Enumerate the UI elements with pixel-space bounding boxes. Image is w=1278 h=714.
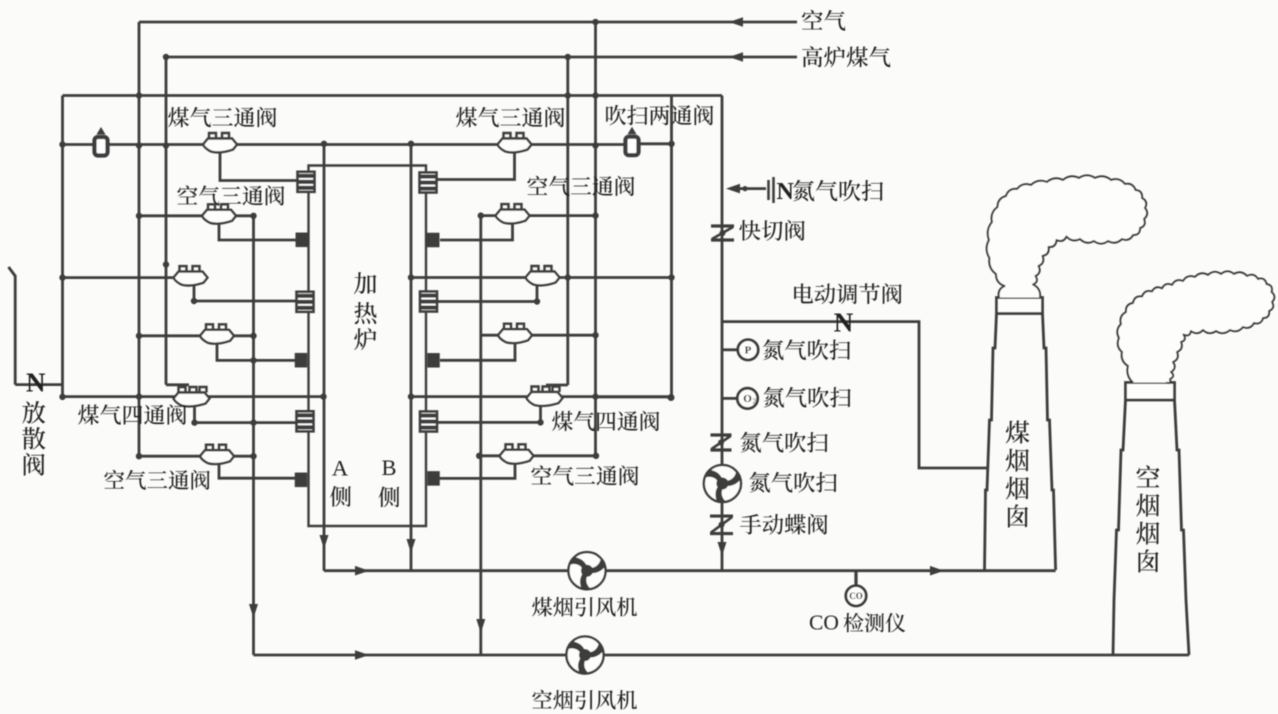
wire row1R valve stem to burner	[437, 152, 515, 180]
junction dot row4L stem crossing	[250, 357, 256, 363]
svg-text:2: 2	[753, 398, 757, 406]
valve air three-way row6 right	[500, 450, 534, 464]
smoke plume from air chimney	[1117, 271, 1274, 383]
label 氮气吹扫 (O2 row)	[763, 387, 850, 408]
junction dot end of x=671.5	[668, 394, 675, 401]
burner black L4	[295, 353, 308, 368]
wire row4L valve stem to burner	[217, 343, 296, 360]
valve manual butterfly 手动蝶阀	[710, 514, 733, 517]
wire long air line end segment to x=671.5	[596, 396, 672, 399]
junction dots row2 right	[478, 212, 484, 218]
label 煤气四通阀 left	[78, 404, 186, 424]
junction dots on y=95.5 line	[136, 92, 142, 98]
arrow down B-side flue	[407, 539, 416, 553]
svg-text:P: P	[745, 345, 752, 357]
junction dots row6 right	[476, 453, 482, 459]
junction dots row4 left	[136, 333, 142, 339]
label 煤气三通阀 right	[456, 107, 564, 127]
label 煤烟引风机	[532, 597, 637, 617]
junction dots on row1 gas header	[59, 141, 65, 147]
burner hatched R1	[420, 173, 437, 193]
valve gas four-way 煤气四通阀 right	[527, 392, 563, 406]
label 空气三通阀 right upper	[527, 176, 634, 196]
wire main purge pipe x=722	[721, 96, 724, 571]
symbol N2 source (N with bars)	[769, 177, 774, 203]
junction dot row3L stem	[191, 298, 197, 304]
label 空烟引风机	[532, 690, 637, 710]
valve small relief valve on row1 left	[95, 137, 108, 156]
smoke plume from coal chimney	[987, 175, 1147, 297]
wire row6 line left	[139, 455, 254, 458]
wire vertical air drop left x=139	[138, 22, 141, 456]
valve gas four-way 煤气四通阀 left	[174, 393, 210, 407]
wire row3R valve stem to burner	[438, 286, 537, 302]
wire vertical gas drop left x=166	[165, 57, 168, 385]
furnace inner wall A-side x=324	[323, 144, 326, 571]
arrow right on coal smoke line (left)	[355, 566, 369, 576]
label 高炉煤气 (blast furnace gas)	[802, 46, 890, 67]
wire row4R valve stem to burner	[440, 343, 515, 360]
burner black R2	[427, 233, 440, 248]
wire row3 line left from box edge	[63, 276, 177, 279]
arrow on gas line	[729, 52, 743, 62]
label 空气三通阀 right lower	[531, 465, 638, 485]
valve air three-way row4 left	[200, 330, 234, 344]
wire blast furnace gas header	[166, 56, 797, 59]
svg-text:B: B	[381, 455, 396, 480]
label 吹扫两通阀	[606, 105, 713, 125]
junction dot gas top x=166	[163, 54, 169, 60]
label 氮气吹扫 (P row)	[763, 339, 850, 360]
junction dot air top x=595.5	[592, 19, 598, 25]
burner hatched L3	[297, 292, 314, 312]
burner hatched R3	[420, 292, 437, 312]
svg-text:N: N	[777, 179, 795, 205]
svg-text:N: N	[26, 368, 46, 398]
fan coal smoke induced draft 煤烟引风机	[568, 552, 605, 589]
wire row6 line right	[479, 454, 596, 457]
wire vertical gas drop right x=568	[566, 57, 569, 385]
arrow down on left exhaust manifold	[249, 604, 258, 618]
wire row4 line left	[139, 334, 254, 337]
arrow right on air smoke line	[355, 650, 369, 660]
arrow down on right exhaust manifold	[476, 619, 485, 633]
svg-text:CO: CO	[809, 611, 839, 635]
furnace outer box 加热炉	[309, 166, 427, 527]
arrow down A-side flue	[320, 535, 329, 549]
wire coal smoke exhaust line y=570.7	[324, 569, 985, 572]
label 空气三通阀 left upper	[177, 185, 284, 205]
gauge CO detector	[846, 586, 866, 606]
label 快切阀	[739, 220, 805, 241]
label 煤气四通阀 right	[552, 411, 659, 431]
valve air three-way row2 right	[481, 204, 596, 223]
burner hatched L5	[297, 411, 314, 431]
burner hatched R5	[420, 412, 437, 432]
wire row5L valve stem to burner	[195, 407, 298, 423]
label 氮气吹扫 top	[793, 180, 883, 201]
wire row3L valve stem to burner	[194, 286, 297, 301]
wire exhaust manifold left x=253.5 down to air-smoke line	[252, 216, 255, 655]
burner black R6	[427, 471, 440, 486]
wire exhaust manifold right x=480.8 down to air-smoke line	[479, 216, 482, 655]
wire gas header row1 y=144.5	[63, 143, 94, 146]
label 氮气吹扫 (valve row)	[740, 432, 827, 453]
svg-text:O: O	[743, 393, 752, 405]
nitrogen purge inlet arrow and line	[726, 184, 766, 194]
wire row5R valve stem to burner	[438, 407, 541, 422]
junction dot row3 left	[59, 274, 65, 280]
junction dot row5R stem	[537, 419, 543, 425]
label 放散阀 (release valve)	[22, 401, 45, 476]
wire row6R valve stem to burner	[439, 464, 515, 479]
wire long air line y=396.6 right part	[411, 395, 670, 398]
burner black L6	[295, 473, 308, 488]
junction dot gas top x=568	[565, 54, 571, 60]
wire row2R valve stem to burner	[440, 223, 513, 240]
junction dots row3 right	[408, 274, 414, 280]
wire gas feed jog to 4-way valve left	[166, 383, 189, 386]
junction dots row2 left	[136, 213, 142, 219]
furnace inner wall B-side x=411	[410, 144, 413, 571]
valve air three-way row4 right	[498, 329, 532, 343]
burner black L2	[296, 233, 309, 248]
valve purge two-way valve 吹扫两通阀	[626, 137, 639, 156]
wire row6L valve stem to burner	[219, 464, 296, 478]
valve release 放散阀 with N actuator	[9, 267, 63, 398]
arrow on air supply line	[729, 17, 743, 27]
junction dots air line left	[59, 394, 65, 400]
wire row3 line right	[411, 276, 672, 279]
gauge O2 with stub	[722, 397, 738, 400]
burner black R4	[427, 353, 440, 368]
valve gas three-way row1 right	[498, 139, 532, 153]
arrow right on coal smoke line (right)	[930, 566, 944, 576]
wire vertical left box edge x=62.5	[61, 96, 64, 398]
wire vertical air drop right x=595.5	[594, 22, 597, 456]
arrow down on purge pipe bottom	[718, 542, 727, 556]
chimney coal smoke 煤烟烟囱	[985, 298, 1056, 571]
label 煤气三通阀 left	[168, 107, 276, 127]
svg-text:A: A	[332, 456, 349, 481]
wire gas distribution line y=95.5	[63, 94, 723, 97]
wire row2L valve stem to burner	[219, 223, 296, 240]
label 手动蝶阀	[740, 514, 827, 535]
junction dots row4 right	[592, 332, 598, 338]
wire vertical x=671.5 (purge box left)	[670, 96, 673, 399]
wire gas feed jog to 4-way valve right	[546, 384, 568, 387]
label 氮气吹扫 (fan row)	[749, 472, 836, 493]
label 电动调节阀	[794, 283, 902, 304]
junction dots row6 left	[136, 453, 142, 459]
CO detector stem	[854, 571, 857, 586]
label 空烟烟囱 vertical	[1136, 465, 1159, 572]
svg-text:N: N	[834, 308, 854, 338]
valve quick cut 快切阀	[711, 224, 734, 227]
wire air smoke exhaust line y=655	[254, 654, 1114, 657]
junction dot row3R stem	[534, 298, 540, 304]
wire long air line y=396.6 left part	[60, 395, 324, 398]
junction dot gas drop at row3L valve top	[163, 261, 169, 267]
junction dots air line right	[408, 393, 414, 399]
fan air smoke induced draft 空烟引风机	[566, 636, 603, 673]
chimney air smoke 空烟烟囱	[1113, 383, 1189, 656]
valve gas three-way row1 left	[203, 139, 237, 153]
svg-text:CO: CO	[849, 591, 863, 601]
blower fan on purge pipe	[704, 465, 741, 502]
valve Z nitrogen purge	[711, 433, 732, 436]
label 空气三通阀 left lower	[104, 470, 210, 490]
valve gas three-way row3 right	[526, 272, 560, 286]
wire air supply header (top)	[139, 21, 797, 24]
burner hatched L1	[298, 172, 315, 192]
valve gas three-way row3 left	[174, 272, 208, 286]
valve air three-way row2 left	[139, 204, 254, 223]
valve air three-way row6 left	[200, 450, 234, 464]
junction dots row5L stem	[191, 419, 197, 425]
label 加热炉 (heating furnace)	[354, 272, 377, 350]
label 空气 (air)	[802, 10, 846, 31]
gauge P with stub	[722, 348, 738, 351]
wire motor control valve line to chimney	[722, 322, 988, 468]
wire row4 line right	[481, 334, 596, 337]
label 煤烟烟囱 vertical	[1006, 421, 1030, 528]
wire row1L valve stem to burner	[220, 152, 297, 181]
